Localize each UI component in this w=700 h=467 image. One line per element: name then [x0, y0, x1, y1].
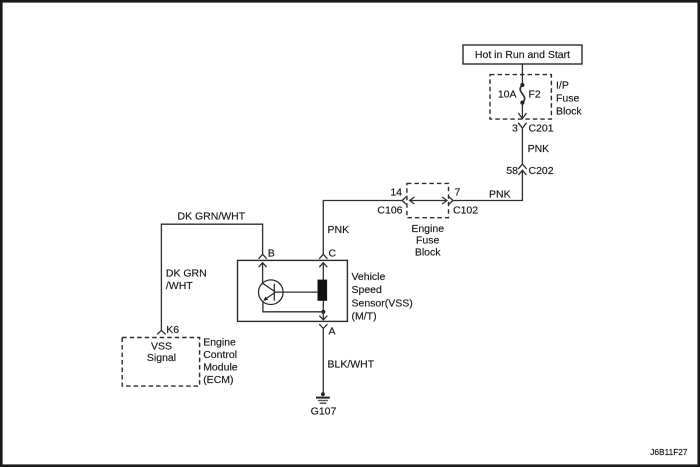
svg-text:58: 58 — [506, 165, 518, 177]
svg-text:Speed: Speed — [352, 284, 383, 296]
svg-text:7: 7 — [455, 187, 461, 199]
transistor Q1 (VSS output) — [259, 280, 318, 305]
svg-text:Engine: Engine — [203, 336, 236, 348]
wire: C202 down then left to C102 — [453, 170, 523, 200]
svg-text:G107: G107 — [311, 405, 337, 417]
svg-text:Engine: Engine — [411, 223, 444, 235]
wire: emitter down then right to junction — [263, 302, 323, 312]
svg-text:I/P: I/P — [556, 79, 569, 91]
svg-text:Control: Control — [203, 349, 237, 361]
svg-text:C: C — [329, 247, 337, 259]
svg-text:VSS: VSS — [151, 340, 172, 352]
connector pin B — [259, 247, 275, 267]
svg-text:(ECM): (ECM) — [203, 374, 233, 386]
wire: pin C to pickup coil — [322, 263, 324, 280]
I/P Fuse Block (dashed box) — [490, 75, 582, 120]
Vehicle Speed Sensor box — [238, 260, 413, 322]
wire: C201 to C202 — [521, 128, 523, 164]
svg-text:10A: 10A — [498, 88, 517, 100]
svg-text:C202: C202 — [529, 165, 554, 177]
connector C106 pin 14 — [377, 187, 406, 217]
svg-text:DK GRN/WHT: DK GRN/WHT — [178, 211, 246, 223]
svg-text:DK GRN: DK GRN — [166, 268, 207, 280]
svg-text:C102: C102 — [453, 205, 478, 217]
svg-text:Sensor(VSS): Sensor(VSS) — [352, 297, 413, 309]
wire: fuse F2 to connector C201 (arrow down) — [518, 103, 526, 119]
svg-text:Module: Module — [203, 362, 238, 374]
pickup coil element — [318, 280, 328, 301]
connector C102 pin 7 — [449, 187, 478, 217]
junction dot — [321, 310, 325, 314]
svg-text:PNK: PNK — [489, 189, 511, 201]
svg-text:C201: C201 — [529, 123, 554, 135]
svg-text:Fuse: Fuse — [416, 235, 440, 247]
connector pin A — [319, 324, 335, 337]
svg-text:Hot in Run and Start: Hot in Run and Start — [475, 49, 570, 61]
connector C201 pin 3 — [512, 123, 554, 135]
svg-text:BLK/WHT: BLK/WHT — [328, 358, 375, 370]
svg-text:Signal: Signal — [147, 352, 176, 364]
svg-text:B: B — [268, 247, 275, 259]
svg-text:PNK: PNK — [328, 224, 350, 236]
power feed box: Hot in Run and Start — [463, 45, 582, 64]
svg-text:Block: Block — [556, 105, 582, 117]
svg-text:14: 14 — [390, 187, 402, 199]
connector pin C — [319, 247, 336, 267]
svg-text:PNK: PNK — [528, 143, 550, 155]
wire label DK GRN /WHT — [166, 268, 207, 292]
svg-text:Block: Block — [415, 246, 441, 258]
svg-text:(M/T): (M/T) — [352, 310, 377, 322]
ground G107 — [311, 392, 337, 417]
svg-text:K6: K6 — [166, 324, 179, 336]
svg-text:F2: F2 — [529, 88, 541, 100]
wire: C106 left then down to VSS pin C — [323, 201, 402, 255]
wire: pin B to transistor collector — [262, 263, 264, 284]
svg-text:C106: C106 — [377, 205, 402, 217]
fuse F2 10A — [498, 83, 541, 105]
connector C202 pin 58 — [506, 164, 553, 177]
connector K6 — [157, 324, 179, 336]
svg-text:3: 3 — [512, 123, 518, 135]
wire: pin A to ground G107 — [322, 328, 324, 393]
wire: pin B up, left, down to ECM K6 — [161, 224, 262, 330]
wire: junction to pin A (arrow down) — [319, 312, 327, 320]
Engine Fuse Block (dashed box) — [407, 183, 449, 258]
Engine Control Module (ECM) dashed box — [122, 336, 238, 386]
svg-text:/WHT: /WHT — [166, 280, 193, 292]
svg-text:Vehicle: Vehicle — [352, 271, 386, 283]
svg-text:A: A — [329, 326, 336, 338]
svg-text:J6B11F27: J6B11F27 — [650, 447, 688, 457]
wire: Hot in Run and Start to fuse F2 — [521, 64, 523, 86]
wire: coil to junction — [322, 301, 324, 312]
svg-text:Fuse: Fuse — [556, 92, 580, 104]
pass-through wire arrow inside Engine Fuse Block — [410, 197, 447, 204]
